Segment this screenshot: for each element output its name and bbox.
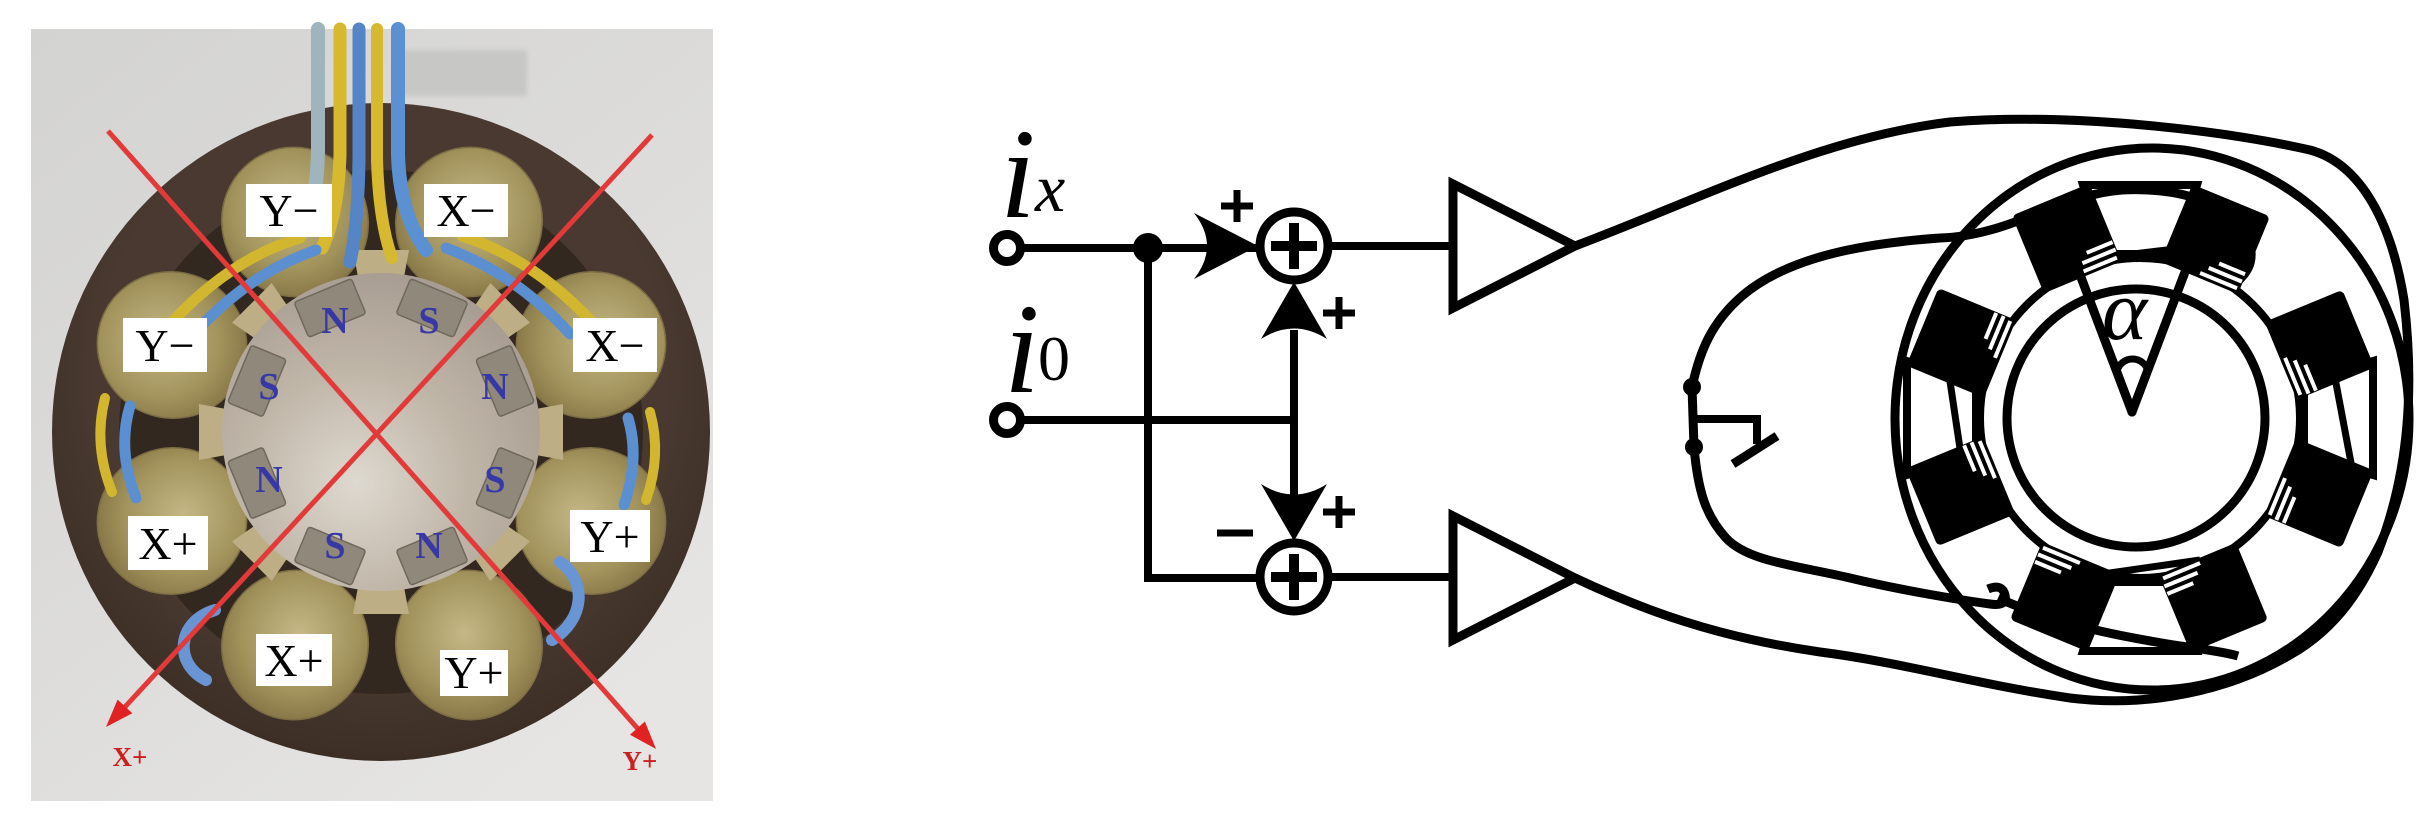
coil Y+ bottom right bbox=[373, 548, 565, 742]
label Y+ right bbox=[570, 510, 650, 562]
svg-text:N: N bbox=[255, 459, 282, 501]
pole tips between coils bbox=[353, 250, 409, 288]
wire S2 to amp A2 bbox=[1328, 573, 1453, 581]
front winding lower strand bbox=[1694, 447, 2005, 605]
plus sign right of down arrow bbox=[1323, 496, 1355, 528]
svg-text:Y+: Y+ bbox=[444, 647, 503, 698]
stator coil cavity bbox=[119, 170, 643, 694]
junction dot bbox=[1133, 233, 1163, 263]
pole shoe left bbox=[1907, 361, 1976, 475]
svg-text:X+: X+ bbox=[264, 635, 323, 686]
motor coil W5 (left lower) bbox=[1906, 436, 2016, 546]
pole tips (tan) between coils bbox=[199, 250, 563, 614]
label Y+ bottom bbox=[440, 650, 508, 696]
label X+ left bbox=[128, 516, 208, 570]
input terminal ix bbox=[994, 235, 1021, 262]
label X+ bottom bbox=[256, 634, 332, 686]
rotor angle arm right bbox=[2132, 272, 2185, 412]
wires to side coils bbox=[172, 238, 300, 322]
wire to lower summing junction bbox=[1144, 574, 1262, 582]
white labels bbox=[123, 184, 657, 698]
label ix bbox=[1000, 103, 1065, 245]
svg-text:X−: X− bbox=[436, 185, 495, 236]
motor coil W6 (bottom left) bbox=[2010, 542, 2120, 652]
svg-text:i: i bbox=[1000, 103, 1036, 245]
connector tick bbox=[1733, 436, 1777, 464]
input terminal i0 bbox=[994, 407, 1021, 434]
wire i0 down to S2 bbox=[1290, 420, 1298, 500]
coil connect wire top bbox=[2100, 243, 2224, 258]
coil connect wire right bbox=[2332, 362, 2352, 468]
photo coils bbox=[75, 125, 688, 742]
winding loop from amplifiers around motor bbox=[1575, 119, 2409, 700]
motor coil W8 (right lower) bbox=[2264, 438, 2374, 548]
label X- right bbox=[573, 318, 657, 372]
svg-text:X+: X+ bbox=[113, 742, 148, 772]
magnets bbox=[228, 279, 535, 586]
arrow down into S2 bbox=[1261, 484, 1327, 541]
connector dot upper bbox=[1683, 378, 1701, 396]
amplifier A2 bbox=[1453, 516, 1575, 640]
connector lead bbox=[1692, 419, 1757, 444]
wire i0 up to S1 bbox=[1290, 330, 1298, 420]
rear winding lower strand bbox=[1998, 598, 2238, 656]
red axis X bbox=[108, 131, 652, 730]
coil connect wire bottom bbox=[2075, 560, 2200, 578]
motor coil W1 (right upper) bbox=[2265, 290, 2375, 400]
svg-text:N: N bbox=[321, 300, 348, 342]
motor coil W4 (left upper) bbox=[1906, 288, 2016, 398]
svg-text:S: S bbox=[258, 366, 279, 408]
svg-text:S: S bbox=[484, 459, 505, 501]
coil Y- left upper bbox=[75, 249, 269, 441]
coil X- top right bbox=[373, 125, 565, 319]
blurred grey label box bbox=[395, 50, 527, 96]
svg-text:Y−: Y− bbox=[259, 185, 318, 236]
angle arc bbox=[2117, 359, 2148, 371]
motor coil W2 (top right) bbox=[2160, 184, 2270, 294]
amplifier A1 bbox=[1453, 184, 1575, 308]
rotor circle bbox=[2007, 289, 2265, 547]
motor coil W3 (top left) bbox=[2012, 184, 2122, 294]
svg-text:x: x bbox=[1034, 150, 1065, 226]
connector vertical segment bbox=[1692, 387, 1694, 447]
summing junction S1 bbox=[1260, 212, 1328, 280]
svg-text:S: S bbox=[418, 300, 439, 342]
svg-text:Y+: Y+ bbox=[580, 511, 639, 562]
wire ix to summing junction bbox=[1019, 244, 1262, 252]
coil X+ left lower bbox=[75, 425, 269, 617]
svg-text:Y+: Y+ bbox=[623, 746, 658, 776]
svg-text:0: 0 bbox=[1038, 323, 1070, 394]
stator outer ring bbox=[52, 103, 710, 761]
wire junction down bbox=[1144, 248, 1152, 578]
coil X- right upper bbox=[494, 249, 688, 441]
pole shoe top bbox=[2083, 185, 2197, 254]
label Y- left bbox=[123, 318, 207, 372]
connector dot lower bbox=[1685, 438, 1703, 456]
arrow into S1 from left bbox=[1194, 213, 1258, 279]
svg-text:X−: X− bbox=[585, 320, 644, 371]
motor coils bbox=[1906, 184, 2375, 653]
lead wire bundle at top bbox=[172, 29, 592, 334]
side wire arcs bbox=[100, 398, 655, 680]
svg-text:X+: X+ bbox=[138, 518, 197, 569]
label X- top right bbox=[424, 184, 508, 237]
svg-text:i: i bbox=[1004, 278, 1040, 420]
pole shoe right bbox=[2304, 361, 2373, 475]
N/S letters bbox=[255, 300, 508, 567]
red arrowheads bbox=[106, 700, 132, 727]
red axis labels bbox=[113, 742, 658, 776]
pole shoe bottom bbox=[2083, 582, 2197, 651]
plus sign at arrow 1 bbox=[1221, 190, 1253, 222]
coil X+ bottom left bbox=[199, 548, 391, 742]
coil Y- top left bbox=[199, 125, 391, 319]
motor stator outer circle bbox=[1895, 148, 2409, 690]
front winding upper strand with connector bbox=[1692, 190, 2251, 387]
svg-text:Y−: Y− bbox=[135, 320, 194, 371]
svg-text:N: N bbox=[481, 366, 508, 408]
svg-text:S: S bbox=[324, 525, 345, 567]
label i0 bbox=[1004, 278, 1070, 420]
minus sign left of S2 bbox=[1217, 530, 1253, 537]
wire i0 horizontal bbox=[1019, 416, 1294, 424]
motor coil W7 (bottom right) bbox=[2158, 543, 2268, 653]
rotor bore bbox=[222, 273, 540, 591]
coil Y+ right lower bbox=[494, 425, 688, 617]
label Y- top left bbox=[246, 184, 332, 237]
plus sign right of up arrow bbox=[1323, 297, 1355, 329]
wire S1 to amp A1 bbox=[1328, 242, 1453, 250]
svg-text:α: α bbox=[2102, 262, 2149, 358]
stator bore circle bbox=[1980, 258, 2300, 578]
summing junction S2 bbox=[1260, 543, 1328, 611]
svg-text:N: N bbox=[415, 525, 442, 567]
rotor angle arm left bbox=[2079, 272, 2132, 412]
photo background bbox=[31, 29, 713, 801]
coil connect wire left bbox=[1948, 368, 1962, 462]
arrow up into S1 bbox=[1261, 282, 1327, 339]
